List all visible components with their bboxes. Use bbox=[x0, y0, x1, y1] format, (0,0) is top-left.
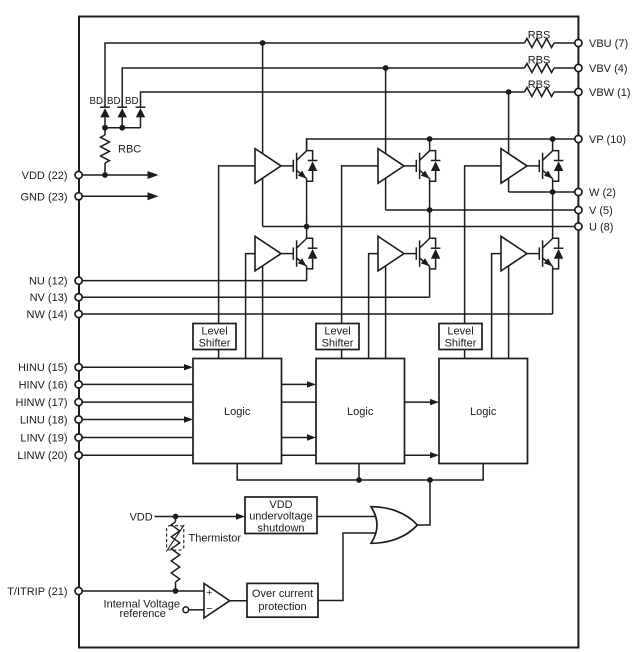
wire thermistor top bbox=[175, 517, 177, 522]
svg-text:VBW (1): VBW (1) bbox=[589, 87, 631, 99]
wire NU line bbox=[82, 280, 307, 282]
svg-text:+: + bbox=[206, 587, 212, 599]
IGBT U high-side bbox=[293, 139, 308, 227]
arrow LINW into logic 3 bbox=[430, 452, 439, 458]
svg-text:Level: Level bbox=[201, 326, 227, 338]
gate driver buffer U low-side bbox=[255, 236, 293, 271]
svg-text:Level: Level bbox=[447, 326, 473, 338]
svg-text:shutdown: shutdown bbox=[257, 522, 304, 534]
thermistor bbox=[166, 522, 184, 582]
svg-text:HINV (16): HINV (16) bbox=[19, 379, 68, 391]
svg-text:VDD: VDD bbox=[269, 499, 292, 511]
wire HINW input bbox=[82, 401, 434, 403]
svg-text:LINV (19): LINV (19) bbox=[20, 433, 67, 445]
svg-text:Logic: Logic bbox=[347, 406, 374, 418]
arrow HINW into logic 3 bbox=[430, 399, 439, 405]
svg-text:Shifter: Shifter bbox=[322, 337, 354, 349]
svg-text:Logic: Logic bbox=[224, 406, 251, 418]
wire LINV input bbox=[82, 437, 311, 439]
IGBT W low-side bbox=[539, 192, 554, 314]
wire V low-side driver input from logic 2 bbox=[369, 254, 378, 359]
logic block 2 bbox=[316, 359, 405, 464]
svg-text:LINW (20): LINW (20) bbox=[17, 450, 67, 462]
resistor RBS (U bootstrap) bbox=[525, 39, 555, 48]
freewheel diode at IGBT U low-side bbox=[307, 238, 318, 269]
wire W phase line bbox=[509, 191, 575, 193]
wire V low-side driver return to logic 2 bbox=[385, 260, 387, 359]
pin circles left bbox=[75, 171, 82, 594]
IGBT W high-side bbox=[539, 139, 554, 192]
wire VDD to undervoltage shutdown bbox=[155, 516, 241, 518]
wire GND internal arrow line bbox=[82, 195, 148, 197]
svg-text:W (2): W (2) bbox=[589, 187, 616, 199]
wire VP bus bbox=[307, 139, 575, 151]
svg-text:RBC: RBC bbox=[118, 144, 141, 156]
freewheel diode at IGBT U high-side bbox=[307, 151, 318, 182]
svg-text:−: − bbox=[206, 603, 212, 615]
resistor RBC bbox=[101, 135, 110, 163]
wire OR gate output to fault bus bbox=[417, 480, 430, 525]
gate driver buffer V high-side bbox=[378, 149, 416, 184]
wire U bootstrap vertical bbox=[262, 43, 264, 227]
arrow HINV into logic 2 bbox=[307, 381, 316, 387]
svg-text:BD: BD bbox=[107, 96, 120, 107]
wire W bootstrap vertical bbox=[508, 92, 510, 192]
wire W low-side driver return to logic 3 bbox=[508, 260, 510, 359]
wire V high-side driver input from level shifter 2 bbox=[342, 166, 378, 324]
arrow LINV into logic 2 bbox=[307, 434, 316, 440]
svg-text:VDD: VDD bbox=[129, 511, 152, 523]
level shifter 1 bbox=[193, 324, 236, 350]
wire NV line bbox=[82, 296, 430, 298]
wire RBC to VDD bbox=[104, 163, 106, 175]
svg-text:undervoltage: undervoltage bbox=[249, 511, 313, 523]
svg-text:Thermistor: Thermistor bbox=[189, 533, 242, 545]
wire U low-side driver input from logic 1 bbox=[246, 254, 255, 359]
resistor RBS (W bootstrap) bbox=[525, 88, 555, 97]
IGBT U low-side bbox=[293, 227, 308, 281]
wire V bootstrap vertical bbox=[385, 68, 387, 210]
svg-text:LINU (18): LINU (18) bbox=[20, 415, 68, 427]
freewheel diode at IGBT W high-side bbox=[553, 151, 564, 182]
over current protection block bbox=[247, 583, 318, 617]
wire LINW input bbox=[82, 454, 434, 456]
wire undervoltage shutdown to OR gate bbox=[317, 516, 381, 518]
VDD undervoltage shutdown block bbox=[245, 497, 317, 534]
wire level shifter 1 to logic 1 bbox=[218, 350, 220, 359]
wire NW line bbox=[82, 313, 553, 315]
svg-text:RBS: RBS bbox=[528, 29, 551, 41]
resistor RBS (V bootstrap) bbox=[525, 64, 555, 73]
IC boundary border bbox=[79, 17, 578, 648]
wire LINU input bbox=[82, 419, 188, 421]
svg-text:T/ITRIP (21): T/ITRIP (21) bbox=[7, 586, 67, 598]
OR gate bbox=[371, 507, 417, 544]
wire HINU input bbox=[82, 366, 188, 368]
diode BD3 bbox=[136, 107, 146, 117]
gate driver buffer U high-side bbox=[255, 149, 293, 184]
wire U high-side driver input from level shifter 1 bbox=[219, 166, 255, 324]
IGBT V high-side bbox=[416, 139, 431, 210]
wire HINV input bbox=[82, 383, 311, 385]
wire BD anode rail bbox=[105, 117, 141, 135]
arrow GND internal bbox=[148, 192, 159, 200]
wire U phase line bbox=[263, 226, 575, 228]
wire U low-side driver return to logic 1 bbox=[262, 260, 264, 359]
svg-text:Over current: Over current bbox=[252, 588, 313, 600]
svg-text:NV (13): NV (13) bbox=[30, 292, 68, 304]
freewheel diode at IGBT V high-side bbox=[430, 151, 441, 182]
comparator (over current) bbox=[204, 583, 230, 618]
wire level shifter 2 to logic 2 bbox=[341, 350, 343, 359]
svg-text:U (8): U (8) bbox=[589, 222, 613, 234]
logic block 3 bbox=[439, 359, 528, 464]
arrow HINU into logic 1 bbox=[184, 364, 193, 370]
logic block 1 bbox=[193, 359, 282, 464]
diode BD1 bbox=[100, 107, 110, 117]
svg-text:GND (23): GND (23) bbox=[20, 191, 67, 203]
wire V phase line bbox=[386, 209, 575, 211]
wire VBW bus bbox=[141, 92, 576, 107]
wire over current protection to OR gate bbox=[318, 533, 381, 601]
IGBT V low-side bbox=[416, 210, 431, 297]
svg-text:Level: Level bbox=[324, 326, 350, 338]
level shifter 3 bbox=[439, 324, 482, 350]
wire fault bus below logic blocks bbox=[237, 464, 483, 481]
svg-text:RBS: RBS bbox=[528, 55, 551, 67]
svg-text:HINU (15): HINU (15) bbox=[18, 362, 68, 374]
gate driver buffer W low-side bbox=[501, 236, 539, 271]
arrow LINU into logic 1 bbox=[184, 416, 193, 422]
svg-text:BD: BD bbox=[125, 96, 138, 107]
level shifter 2 bbox=[316, 324, 359, 350]
wire thermistor bottom bbox=[175, 582, 177, 591]
freewheel diode at IGBT W low-side bbox=[553, 238, 564, 269]
svg-text:reference: reference bbox=[119, 608, 165, 620]
wire VBV bus bbox=[122, 68, 575, 107]
svg-text:RBS: RBS bbox=[528, 79, 551, 91]
wire VDD internal arrow line bbox=[82, 174, 148, 176]
svg-text:HINW (17): HINW (17) bbox=[16, 397, 68, 409]
svg-text:VBV (4): VBV (4) bbox=[589, 63, 628, 75]
svg-text:VP (10): VP (10) bbox=[589, 134, 626, 146]
gate driver buffer V low-side bbox=[378, 236, 416, 271]
wire comparator output to over current protection bbox=[230, 600, 247, 602]
svg-text:V (5): V (5) bbox=[589, 205, 613, 217]
svg-text:protection: protection bbox=[258, 601, 306, 613]
diode BD2 bbox=[117, 107, 127, 117]
arrow into undervoltage shutdown bbox=[236, 513, 245, 519]
arrow VDD internal bbox=[148, 171, 159, 179]
wire T/ITRIP line bbox=[82, 590, 204, 592]
reference node circle bbox=[183, 607, 189, 613]
svg-text:Shifter: Shifter bbox=[199, 337, 231, 349]
wire reference to comparator bbox=[189, 609, 204, 611]
svg-text:BD: BD bbox=[90, 96, 103, 107]
freewheel diode at IGBT V low-side bbox=[430, 238, 441, 269]
wire W low-side driver input from logic 3 bbox=[492, 254, 501, 359]
svg-text:VDD (22): VDD (22) bbox=[22, 170, 68, 182]
svg-text:NW (14): NW (14) bbox=[27, 309, 68, 321]
svg-text:Logic: Logic bbox=[470, 406, 497, 418]
wire W high-side driver input from level shifter 3 bbox=[465, 166, 501, 324]
svg-text:Shifter: Shifter bbox=[445, 337, 477, 349]
svg-text:NU (12): NU (12) bbox=[29, 276, 68, 288]
wire VBU bus bbox=[105, 43, 575, 107]
pin circles right bbox=[575, 39, 582, 230]
gate driver buffer W high-side bbox=[501, 149, 539, 184]
wire level shifter 3 to logic 3 bbox=[464, 350, 466, 359]
svg-text:VBU (7): VBU (7) bbox=[589, 38, 628, 50]
